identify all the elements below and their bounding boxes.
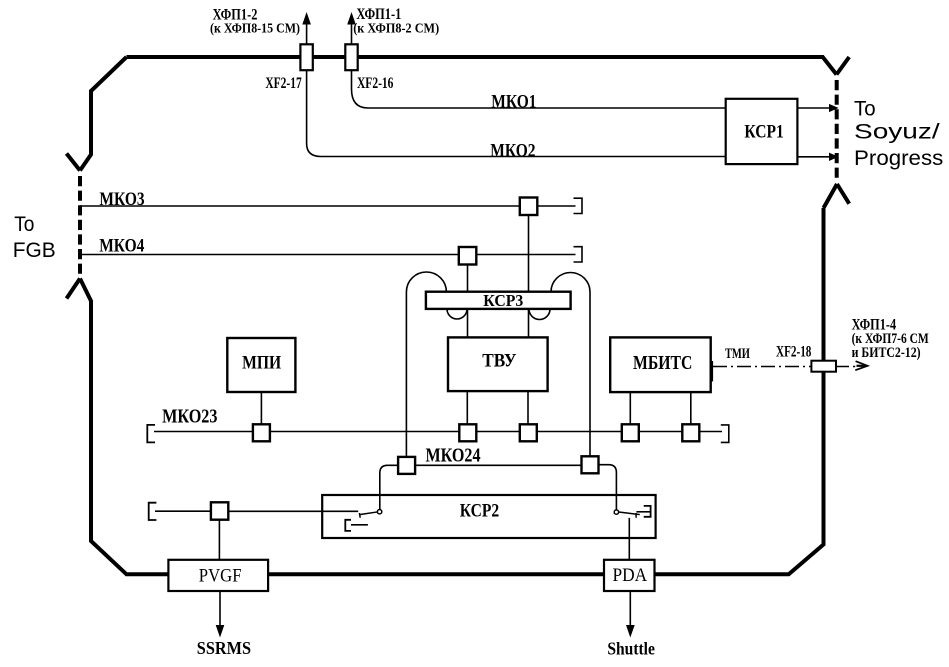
terminator KCP2 right internal <box>644 506 651 517</box>
svg-text:МКО3: МКО3 <box>99 189 144 210</box>
svg-text:PDA: PDA <box>613 565 648 586</box>
node bottom-right fork <box>824 184 838 208</box>
wire TVU bottom pins <box>466 391 468 425</box>
coupler MKO24 right <box>582 456 599 473</box>
coupler MKO23 under MBITS right <box>682 424 699 441</box>
switch KCP2 right contact <box>614 510 618 514</box>
svg-text:To: To <box>14 212 34 236</box>
box MPI <box>227 338 295 392</box>
box KCP2 <box>322 495 655 538</box>
node top-left shield-break fork prong <box>67 154 81 171</box>
wire KCP3 left loop arc to MKO24 <box>406 272 446 457</box>
wire PDA riser <box>628 518 630 560</box>
svg-text:МКО4: МКО4 <box>99 235 145 256</box>
wire KCP3 right under-bump <box>529 309 550 320</box>
wire KCP3 left under-bump <box>447 309 467 319</box>
svg-text:(к ХФП8-15 СМ): (к ХФП8-15 СМ) <box>210 22 300 37</box>
wire PVGF riser <box>218 520 220 560</box>
svg-text:МКО24: МКО24 <box>426 445 481 466</box>
box KCP3 <box>426 292 571 309</box>
wire MKO24 right drop into KCP2 <box>599 465 617 510</box>
svg-text:SSRMS: SSRMS <box>197 638 251 658</box>
svg-text:КСР3: КСР3 <box>483 291 523 310</box>
connector XFP1-1 / XF2-16 <box>351 23 353 44</box>
svg-text:МКО23: МКО23 <box>162 406 218 427</box>
wire KCP2 left feed <box>226 510 358 512</box>
svg-text:Soyuz/: Soyuz/ <box>854 120 940 144</box>
terminator KCP2 left internal <box>345 520 351 531</box>
svg-text:МКО2: МКО2 <box>490 140 535 161</box>
connector XFP1-4 / XF2-18 <box>811 361 836 372</box>
coupler MKO23 under TVU right <box>520 424 537 441</box>
wire KCP3 right loop arc to MKO24 <box>551 273 590 457</box>
box MBITS <box>610 337 711 392</box>
wire MKO23 <box>154 431 722 433</box>
terminator MKO4 right <box>574 247 583 262</box>
svg-text:XF2-18: XF2-18 <box>776 343 812 360</box>
svg-text:ТВУ: ТВУ <box>482 350 516 371</box>
svg-text:и БИТС2-12): и БИТС2-12) <box>852 345 921 361</box>
wire Shuttle arrow <box>629 591 631 628</box>
svg-text:МПИ: МПИ <box>242 353 282 373</box>
wire thick left border, bottom bus, right border <box>80 208 824 574</box>
coupler MKO23 under TVU left <box>459 424 476 441</box>
svg-text:XF2-17: XF2-17 <box>265 75 301 92</box>
svg-text:To: To <box>854 97 876 121</box>
wire MKO24 <box>415 464 581 466</box>
connector XFP1-2 / XF2-17 <box>306 23 308 44</box>
svg-text:FGB: FGB <box>13 238 56 262</box>
svg-text:Progress: Progress <box>854 146 943 170</box>
wire stub MKO3 coupler to TVU <box>528 215 530 337</box>
wire right dashed break <box>835 80 839 182</box>
wire MKO24 left drop into KCP2 <box>380 465 398 509</box>
box KCP1 <box>726 99 798 164</box>
box PDA <box>604 560 655 591</box>
coupler PVGF line <box>211 502 228 519</box>
terminator MKO3 right <box>574 198 583 213</box>
wire SSRMS arrow <box>219 591 221 628</box>
wire thick top bus <box>127 57 837 75</box>
terminator MKO23 right <box>721 425 729 443</box>
svg-text:(к ХФП8-2 СМ): (к ХФП8-2 СМ) <box>353 22 439 37</box>
coupler MKO24 left <box>398 457 415 474</box>
wire thick top-left corner down to fork <box>80 57 127 171</box>
wire MKO1 stub from XF2-16 <box>352 70 726 108</box>
terminator MKO23 left <box>147 425 155 443</box>
svg-text:КСР2: КСР2 <box>460 501 500 521</box>
svg-text:ТМИ: ТМИ <box>725 346 750 362</box>
switch KCP2 left contact <box>377 510 381 514</box>
wire left dashed break <box>78 176 82 278</box>
wire MKO2 stub from XF2-17 <box>307 70 726 157</box>
wire KCP1 out MKO1 arrow <box>797 107 830 109</box>
coupler on MKO3 <box>520 198 538 216</box>
svg-text:XF2-16: XF2-16 <box>357 75 394 92</box>
wire PVGF line left <box>155 510 211 512</box>
svg-text:PVGF: PVGF <box>199 565 242 586</box>
coupler on MKO4 <box>459 247 477 265</box>
svg-text:МКО1: МКО1 <box>491 92 536 113</box>
coupler MKO23 under MPI <box>253 424 270 441</box>
wire MKO4 <box>80 254 576 256</box>
box TVU <box>448 337 548 391</box>
svg-text:Shuttle: Shuttle <box>607 639 655 659</box>
terminator PVGF line left <box>149 503 157 520</box>
wire MKO3 <box>80 205 576 207</box>
coupler MKO23 under MBITS left <box>622 424 639 441</box>
wire KCP1 out MKO2 arrow <box>797 156 830 158</box>
wire stub MKO4 coupler to TVU <box>467 265 469 338</box>
wire TMI telemetry dash-dot <box>713 366 811 368</box>
wire MPI pin <box>260 392 262 425</box>
wire MBITS bottom pins <box>629 392 631 425</box>
node top-right fork prong <box>837 57 850 75</box>
node left lower fork prong <box>67 279 81 299</box>
svg-text:ХФП1-1: ХФП1-1 <box>356 6 401 23</box>
svg-text:МБИТС: МБИТС <box>633 353 692 374</box>
svg-text:КСР1: КСР1 <box>744 122 783 143</box>
box PVGF <box>168 560 268 591</box>
